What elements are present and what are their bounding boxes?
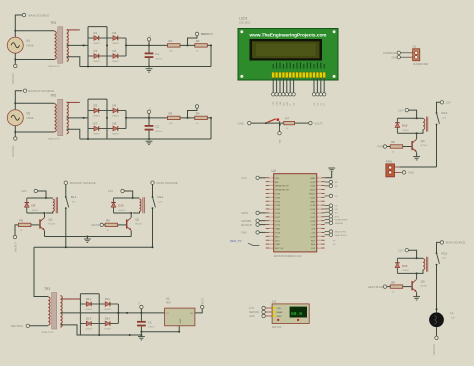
- svg-text:D4: D4: [113, 49, 117, 53]
- svg-text:BC547: BC547: [135, 224, 142, 226]
- svg-text:Q3: Q3: [421, 279, 425, 283]
- wire pot to VOUT: [295, 122, 309, 124]
- svg-text:D11: D11: [86, 297, 91, 301]
- svg-text:U1: U1: [166, 297, 170, 301]
- svg-text:TRAN-2P2S: TRAN-2P2S: [48, 138, 61, 141]
- bridge middle rail: [106, 27, 108, 67]
- svg-text:IO32: IO32: [275, 201, 281, 203]
- LCD pin wire E: [289, 78, 291, 93]
- diode D7: [88, 121, 107, 135]
- svg-text:IO13: IO13: [275, 233, 281, 235]
- wire U2 BTN: [325, 215, 329, 217]
- wire RL4 contact down: [436, 125, 438, 168]
- svg-text:1N4007: 1N4007: [112, 116, 120, 118]
- svg-text:LCD1: LCD1: [239, 17, 248, 21]
- wire to FAN connector: [399, 166, 436, 168]
- wire to C3: [140, 313, 142, 321]
- terminal MAIN SOURCE: [151, 181, 178, 185]
- junction: [98, 334, 100, 336]
- svg-text:MAINBK: MAINBK: [241, 219, 251, 223]
- terminal GND J1: [391, 55, 400, 59]
- svg-text:IO15: IO15: [310, 236, 316, 238]
- svg-text:FAN: FAN: [378, 145, 383, 149]
- svg-text:www.TheEngineeringProjects.com: www.TheEngineeringProjects.com: [248, 32, 326, 37]
- wire U3 SENSR1: [265, 311, 272, 313]
- svg-text:IO14: IO14: [275, 221, 281, 223]
- bridge left rail: [87, 99, 89, 139]
- svg-text:GND: GND: [277, 316, 282, 318]
- terminal U2 BTN: [329, 215, 339, 219]
- terminal 12V: [21, 189, 37, 193]
- LCD pin wire D7: [323, 78, 325, 93]
- svg-text:R4: R4: [196, 112, 200, 116]
- junction: [187, 117, 189, 119]
- svg-text:TXD0: TXD0: [310, 190, 316, 192]
- relay contact RL3: [436, 251, 448, 265]
- svg-text:IO21: IO21: [310, 197, 316, 199]
- bridge right rail: [125, 111, 127, 129]
- wire U2 SENSR1: [325, 222, 329, 224]
- svg-text:3.3V: 3.3V: [241, 176, 247, 180]
- svg-text:R3: R3: [169, 112, 173, 116]
- wire to input terminal: [104, 224, 106, 226]
- wire collector: [416, 133, 418, 139]
- svg-text:BACKUP: BACKUP: [14, 242, 17, 252]
- svg-text:7805: 7805: [166, 303, 172, 305]
- regulator U1: [165, 297, 195, 326]
- svg-text:BTN: BTN: [335, 216, 340, 218]
- wire collector: [44, 213, 46, 217]
- wire contact down: [65, 208, 67, 247]
- svg-text:88.8: 88.8: [291, 311, 302, 317]
- wire lamp down: [436, 327, 438, 336]
- transistor Q3: [411, 279, 428, 292]
- wire to contact: [437, 102, 441, 113]
- bridge3 right rail: [117, 304, 119, 324]
- wire base: [403, 286, 412, 288]
- ground Q4: [413, 157, 420, 160]
- junction: [125, 44, 127, 46]
- svg-text:D10: D10: [118, 204, 124, 208]
- relay coil RL1: [53, 197, 58, 213]
- wire term to R: [387, 286, 390, 288]
- coil bottom lead: [417, 130, 423, 134]
- svg-text:HEAT BULB: HEAT BULB: [335, 234, 347, 237]
- emitter rail: [45, 236, 132, 238]
- svg-text:BACKUPIN: BACKUPIN: [335, 231, 347, 234]
- terminal U2 MAINBK: [241, 219, 259, 223]
- junction: [45, 197, 47, 199]
- junction: [83, 44, 85, 46]
- svg-text:MAIN: MAIN: [241, 211, 248, 215]
- svg-text:R7: R7: [285, 116, 289, 120]
- terminal LCD VEE: [278, 93, 281, 96]
- svg-text:TR1: TR1: [50, 21, 56, 25]
- wire to input terminal: [15, 225, 18, 235]
- relay coil RL4: [423, 117, 428, 132]
- wire J1 pin2: [401, 56, 409, 58]
- svg-text:BC547: BC547: [421, 285, 428, 287]
- power terminal: [147, 38, 150, 41]
- capacitor C3: [137, 321, 155, 329]
- coil bottom lead: [133, 211, 140, 213]
- terminal LCD D5: [316, 93, 319, 96]
- svg-text:NEUTRAL: NEUTRAL: [433, 343, 436, 355]
- svg-text:GND: GND: [408, 171, 414, 175]
- svg-text:12V: 12V: [21, 189, 26, 193]
- relay contact RL4: [436, 111, 448, 125]
- svg-text:1N4007: 1N4007: [93, 134, 101, 136]
- terminal U2 D4: [329, 194, 338, 198]
- junction: [152, 246, 154, 248]
- junction: [416, 272, 418, 274]
- ground U2: [328, 168, 335, 171]
- terminal LCD E: [289, 93, 292, 96]
- svg-text:FAN: FAN: [386, 160, 392, 164]
- wire cap to rail: [148, 58, 150, 67]
- svg-text:1N4007: 1N4007: [85, 309, 93, 311]
- resistor R4: [195, 112, 208, 125]
- wire R down: [207, 118, 211, 139]
- wire U2 BACKUP: [259, 224, 265, 226]
- LCD pin wire D6: [320, 78, 322, 93]
- diode D11: [80, 297, 99, 311]
- junction: [65, 246, 67, 248]
- LCD pin name row: [273, 63, 325, 69]
- svg-text:EN: EN: [275, 182, 278, 184]
- TR3 secondary top lead: [60, 298, 80, 300]
- wire R to R: [180, 117, 195, 119]
- wire U3 GND: [265, 315, 272, 317]
- coil top lead: [422, 117, 424, 119]
- svg-text:VSINE: VSINE: [26, 117, 34, 120]
- junction: [14, 59, 16, 61]
- wire U2 D6: [325, 208, 329, 210]
- svg-text:CMD: CMD: [275, 244, 280, 246]
- svg-text:IO22: IO22: [310, 186, 316, 188]
- wire U2 3.3V: [259, 177, 265, 179]
- svg-text:TR2: TR2: [50, 94, 56, 98]
- resistor R1: [168, 39, 181, 52]
- svg-text:IO16: IO16: [310, 221, 316, 223]
- potentiometer R7: [267, 116, 294, 131]
- junction: [148, 138, 150, 140]
- terminal U2 D6: [329, 207, 338, 211]
- svg-text:R1: R1: [169, 39, 173, 43]
- svg-text:R5: R5: [19, 219, 23, 223]
- terminal MAIN SOURCE: [22, 13, 49, 17]
- svg-text:MAIN: MAIN: [91, 223, 99, 227]
- svg-text:EXT_5V: EXT_5V: [275, 248, 284, 250]
- svg-text:IO35: IO35: [275, 197, 281, 199]
- LCD pin wire RS: [282, 78, 284, 93]
- svg-text:V1: V1: [26, 39, 30, 43]
- svg-text:NEUTRAL: NEUTRAL: [12, 145, 15, 157]
- svg-text:12V: 12V: [108, 189, 113, 193]
- bridge top edge: [88, 98, 107, 100]
- terminal FAN: [378, 145, 387, 149]
- bottom return rail: [80, 138, 211, 140]
- terminal HEAT BULB: [368, 285, 387, 289]
- terminal U2 3.3V: [241, 176, 259, 180]
- transformer TR1: [48, 21, 69, 68]
- terminal 12V: [440, 101, 451, 105]
- snubber bottom rail: [397, 132, 416, 134]
- svg-text:D1: D1: [94, 31, 98, 35]
- terminal MAIN SOURCE: [440, 241, 465, 245]
- terminal MAIN: [195, 32, 208, 36]
- bridge3 left rail: [79, 294, 81, 335]
- transformer TR2: [48, 94, 69, 141]
- wire neutral to TR3: [30, 325, 49, 327]
- wire source bottom: [14, 126, 16, 137]
- secondary bottom lead: [67, 57, 80, 67]
- diode D8: [107, 121, 126, 135]
- terminal U2 BACKUP: [241, 223, 259, 227]
- svg-text:RL4: RL4: [442, 111, 448, 115]
- terminal BACKUP: [13, 235, 16, 238]
- snubber top rail: [397, 257, 423, 259]
- wire center tap: [67, 44, 88, 46]
- diode D3: [88, 49, 107, 63]
- junction: [416, 257, 418, 259]
- svg-text:BACKUP SOURCE: BACKUP SOURCE: [28, 89, 54, 93]
- LCD pin wire D5: [316, 78, 318, 93]
- bridge right rail: [125, 38, 127, 56]
- svg-text:12V: 12V: [398, 108, 403, 112]
- svg-text:D5: D5: [94, 103, 98, 107]
- wire source to primary top: [15, 102, 54, 104]
- U2 pin names: [275, 178, 316, 250]
- junction: [140, 312, 142, 314]
- svg-text:BACKUP: BACKUP: [201, 32, 213, 36]
- terminal GND: [238, 121, 252, 125]
- terminal VOUT R7: [309, 121, 323, 125]
- terminal GND FAN: [402, 171, 414, 175]
- svg-text:D12: D12: [105, 297, 111, 301]
- svg-text:2200uF: 2200uF: [148, 327, 156, 329]
- wire U2 FAN: [259, 231, 265, 233]
- svg-text:Q2: Q2: [135, 218, 139, 222]
- secondary top lead: [67, 101, 80, 103]
- terminal LCD D4: [312, 93, 315, 96]
- svg-text:GND: GND: [310, 178, 315, 180]
- svg-text:NEUTRAL: NEUTRAL: [11, 324, 24, 328]
- wire BACKUP SOURCE to source: [15, 91, 22, 110]
- junction: [210, 44, 212, 46]
- junction: [117, 312, 119, 314]
- LCD pin wire VEE: [279, 78, 281, 93]
- svg-text:VDD: VDD: [277, 308, 282, 310]
- svg-text:R9: R9: [391, 140, 395, 144]
- coil top rail: [27, 197, 53, 199]
- relay coil RL3: [423, 257, 428, 272]
- wire source to primary bottom: [15, 59, 54, 61]
- svg-text:J1: J1: [413, 45, 417, 49]
- svg-text:BACKUP: BACKUP: [241, 223, 252, 227]
- terminal U3 SENSR1: [249, 310, 265, 314]
- TR3 center tap wire: [60, 312, 164, 314]
- svg-text:2200uF: 2200uF: [155, 58, 163, 60]
- lamp L1: [429, 311, 455, 327]
- svg-text:D2: D2: [113, 31, 117, 35]
- junction: [86, 236, 88, 238]
- ground under C2: [146, 141, 153, 144]
- diode D14: [99, 316, 118, 330]
- wire source to primary top: [15, 30, 54, 32]
- bridge3 middle rail: [98, 294, 100, 335]
- svg-text:2200uF: 2200uF: [155, 131, 163, 133]
- terminal BACKUP SOURCE: [23, 89, 54, 93]
- wire U2 MAINBK: [259, 220, 265, 222]
- junction: [83, 117, 85, 119]
- svg-text:U2: U2: [272, 169, 276, 173]
- junction: [148, 117, 150, 119]
- LCD pin wire D0: [293, 78, 295, 93]
- svg-text:VOUT: VOUT: [314, 121, 323, 125]
- LCD module LCD1: [238, 17, 338, 81]
- svg-text:MAIN SOURCE: MAIN SOURCE: [446, 241, 466, 245]
- svg-text:C3: C3: [148, 321, 152, 325]
- terminal NEUTRAL: [14, 64, 17, 67]
- svg-text:SENSOR_VN: SENSOR_VN: [275, 190, 289, 192]
- coil bottom rail: [27, 212, 45, 214]
- svg-text:D6: D6: [113, 103, 117, 107]
- wire GND to pot: [251, 122, 284, 124]
- bridge middle rail: [106, 99, 108, 139]
- svg-text:IO17: IO17: [310, 217, 316, 219]
- svg-text:IO26: IO26: [275, 213, 281, 215]
- diode D13: [80, 316, 99, 330]
- wire FAN gnd: [400, 171, 402, 173]
- svg-text:1N4007: 1N4007: [93, 61, 101, 63]
- diode D6: [107, 103, 126, 117]
- terminal LCD D7: [323, 93, 326, 96]
- svg-text:IO25: IO25: [275, 209, 281, 211]
- svg-text:D13: D13: [86, 316, 92, 320]
- svg-text:IO12: IO12: [275, 225, 281, 227]
- LCD pin wire D4: [313, 78, 315, 93]
- svg-text:RL2: RL2: [158, 195, 164, 199]
- secondary top lead: [67, 29, 80, 31]
- svg-text:SENT_PC: SENT_PC: [230, 240, 242, 243]
- junction: [14, 131, 16, 133]
- sensor U3 DHT22: [272, 300, 309, 329]
- transistor Q4: [411, 139, 428, 152]
- terminal LCD RS: [282, 93, 285, 96]
- junction: [106, 44, 108, 46]
- svg-text:GND: GND: [391, 55, 397, 59]
- terminal HUMIDIFIER: [383, 51, 400, 55]
- secondary bottom lead: [67, 129, 80, 139]
- wire BACKUP stem: [188, 108, 198, 118]
- junction: [14, 102, 16, 104]
- svg-text:VEE: VEE: [280, 139, 282, 144]
- junction: [125, 117, 127, 119]
- svg-text:SENSR1: SENSR1: [249, 310, 260, 314]
- ground Q3: [413, 297, 420, 300]
- ground relay row: [84, 239, 91, 242]
- wire terminal to cap: [148, 114, 150, 126]
- junction: [210, 117, 212, 119]
- diode D15: [395, 258, 410, 273]
- transistor Q2: [126, 218, 143, 231]
- terminal LCD VSS: [272, 93, 275, 96]
- svg-text:MAIN SOURCE: MAIN SOURCE: [157, 181, 178, 185]
- microcontroller U2: [272, 169, 317, 258]
- svg-text:TRAN-2P2S: TRAN-2P2S: [48, 65, 61, 68]
- junction: [416, 132, 418, 134]
- junction: [436, 308, 438, 310]
- diode D10: [111, 198, 126, 213]
- svg-text:D8: D8: [113, 121, 117, 125]
- wire base: [117, 224, 126, 226]
- svg-text:VSS: VSS: [273, 101, 275, 106]
- junction: [187, 44, 189, 46]
- wire center tap: [67, 117, 88, 119]
- transistor Q1: [39, 218, 56, 231]
- junction: [129, 334, 131, 336]
- wire base: [403, 146, 412, 148]
- wire 12V in: [409, 110, 417, 118]
- svg-text:BC547: BC547: [421, 145, 428, 147]
- wire MAIN stem: [188, 36, 198, 46]
- wire contact down: [152, 208, 154, 247]
- diode D1: [88, 31, 107, 45]
- resistor R2: [195, 39, 208, 52]
- svg-text:HUMIDIFIER: HUMIDIFIER: [335, 220, 348, 222]
- svg-text:IO34: IO34: [275, 194, 281, 196]
- terminal U3 3.3V: [249, 306, 265, 310]
- junction: [87, 138, 89, 140]
- svg-text:1N4007: 1N4007: [112, 134, 120, 136]
- terminal NEUTRAL: [14, 137, 17, 140]
- svg-text:L1: L1: [450, 311, 454, 315]
- wire J1 pin1: [401, 52, 409, 54]
- svg-text:GND: GND: [275, 229, 280, 231]
- svg-text:RL3: RL3: [442, 251, 448, 255]
- bottom return rail: [80, 66, 211, 68]
- svg-text:IO19: IO19: [310, 205, 316, 207]
- svg-text:R6: R6: [106, 219, 110, 223]
- svg-text:12V: 12V: [442, 118, 446, 120]
- coil top rail: [114, 197, 140, 199]
- capacitor C1: [145, 52, 163, 60]
- terminal U3 GND: [249, 314, 265, 318]
- LCD pin wire VSS: [272, 78, 274, 93]
- relay contact RL1: [65, 195, 77, 209]
- wire U2 BACKUPIN: [325, 231, 329, 233]
- svg-text:GND: GND: [238, 121, 246, 125]
- wire U2 HUMIDIFIER: [325, 219, 329, 221]
- wire emitter: [130, 231, 132, 237]
- junction: [265, 122, 267, 124]
- resistor R8: [390, 280, 403, 293]
- svg-text:TR3: TR3: [44, 287, 50, 291]
- coil bottom lead: [46, 211, 53, 213]
- wire U2 D5: [325, 205, 329, 207]
- svg-text:C1: C1: [155, 52, 159, 56]
- wire U2 D7: [325, 211, 329, 213]
- diode D12: [99, 297, 118, 311]
- LCD pin header: [272, 72, 326, 77]
- wire to contact: [437, 242, 441, 253]
- svg-text:1N4007: 1N4007: [93, 43, 101, 45]
- bridge left rail: [87, 27, 89, 67]
- svg-text:SENSOR_VP: SENSOR_VP: [275, 186, 289, 188]
- wire rail to TR3: [34, 247, 48, 296]
- svg-text:RL1: RL1: [71, 195, 77, 199]
